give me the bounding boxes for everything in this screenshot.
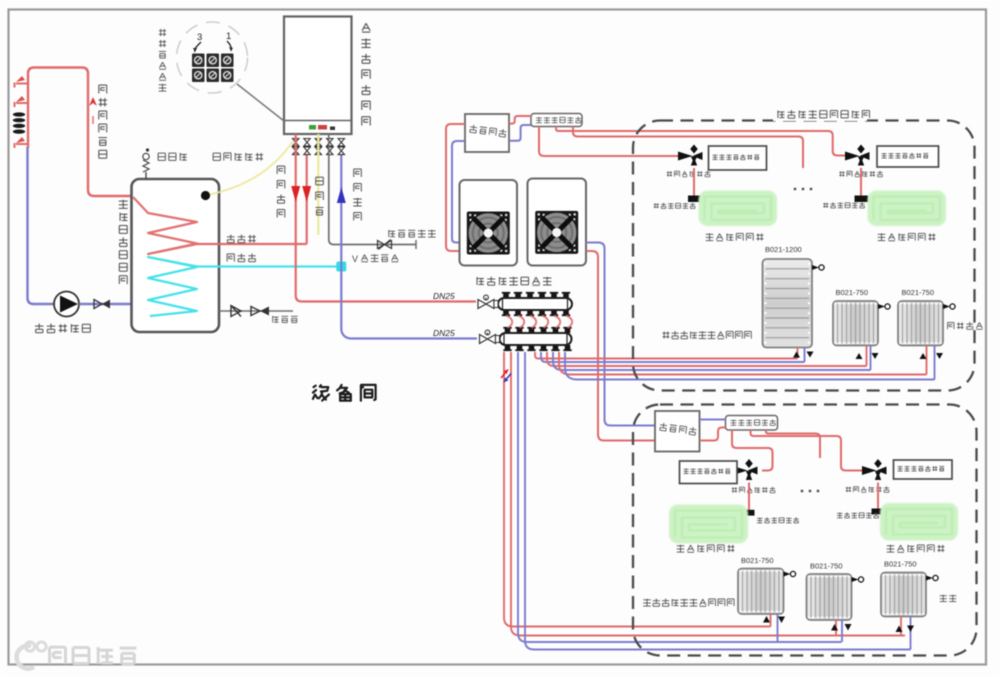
label 盘管式换热水箱 (vertical) xyxy=(119,200,128,284)
label 一级分集水缸 (box1) xyxy=(536,117,581,123)
zone 2F dashed boundary xyxy=(633,121,975,391)
label 地面辐射末端 (1F-right) xyxy=(887,545,945,553)
wire heating supply port1 (red) down to DN25 xyxy=(296,134,476,302)
outdoor unit 1 xyxy=(460,180,518,266)
label 温度传感器 xyxy=(213,153,263,161)
label DN25 supply xyxy=(433,291,455,301)
wire red unit1 to manifold1 xyxy=(509,116,531,124)
floor heating mat 1F-right xyxy=(880,503,958,541)
wire red outdoor2 to indoor2 (1F riser) xyxy=(586,251,655,441)
svg-text:B021-1200: B021-1200 xyxy=(765,245,802,254)
watermark text 大数跨境 xyxy=(50,647,137,664)
label 系统燃气壁挂炉 (vertical) xyxy=(361,23,370,125)
label 热水出 xyxy=(227,235,256,243)
zone 1F dashed boundary xyxy=(633,405,977,656)
label 一楼分集水器 (1F-left) xyxy=(757,517,799,523)
radiator stubs 2F-b xyxy=(920,346,944,380)
outdoor unit 2 xyxy=(528,179,587,266)
tank cyan coil xyxy=(148,257,197,316)
label box thermostat 1F-right xyxy=(894,460,953,479)
wire valve to fitting (1F-left) xyxy=(748,483,750,510)
radiator B021-750 2F-b xyxy=(898,301,955,346)
manifold M2 return inlet valve xyxy=(480,330,500,343)
radiator B021-1200 towel xyxy=(763,259,825,348)
remote linkage port detail circle xyxy=(177,22,248,93)
shower head marks xyxy=(13,112,25,133)
wire bundle right to 2F radiators xyxy=(535,352,798,359)
label box thermostat 2F-left xyxy=(709,146,767,170)
floor manifold fitting (2F-left) xyxy=(688,196,702,203)
ellipsis more circuits 1F xyxy=(801,490,820,493)
label box thermostat 1F-left xyxy=(680,461,738,484)
label 冷水进 xyxy=(227,254,256,262)
label 二楼分集水器 (left) xyxy=(654,203,696,209)
radiator B021-750 2F-a xyxy=(833,301,890,346)
label 地面辐射末端 (1F-left) xyxy=(677,545,735,553)
faucet tap 3 xyxy=(15,137,29,148)
terminal block 6 screws xyxy=(192,54,234,83)
tank red coil xyxy=(133,197,197,254)
heat pump indoor unit 2 box xyxy=(655,411,700,452)
wire red unit2 to manifold2 xyxy=(700,428,726,441)
wire port2 (red) down to tank hot-out xyxy=(306,155,308,244)
label 自来水 (tank inlet) xyxy=(273,316,298,323)
wire blue unit2 to manifold2 xyxy=(700,419,726,421)
floor heating mat 2F-right xyxy=(868,191,947,227)
thermostatic valve 2F-left xyxy=(678,145,703,166)
safety valve symbol xyxy=(143,148,149,179)
label 二楼卫生间散热器采暖 xyxy=(662,331,751,339)
thermostatic valve 1F-left xyxy=(733,459,758,480)
temperature sensor wire (yellow curve) xyxy=(210,141,293,195)
wire red A2 manifold2 to valve 1F-left xyxy=(732,430,773,471)
wire domestic hot water supply loop (red) xyxy=(28,68,133,197)
floor manifold fitting (1F-left) xyxy=(744,510,755,516)
flow arrows red down xyxy=(291,186,311,202)
svg-text:1: 1 xyxy=(226,31,231,42)
wire blue unit1 left to outdoor unit1 xyxy=(452,141,465,243)
label 设备间 (large) xyxy=(313,385,376,401)
V-filter valve symbol xyxy=(378,240,392,250)
tank coil heat exchanger box xyxy=(132,179,220,332)
faucet tap 2 xyxy=(15,96,29,107)
radiator stubs tall xyxy=(793,348,814,363)
label 水暖温控阀门 (1F-right) xyxy=(846,486,890,492)
floor manifold fitting (2F-right) xyxy=(855,196,869,203)
label 水暖温控阀门 (2F-left) xyxy=(667,171,711,177)
thermostatic valve 2F-right xyxy=(845,145,870,166)
label B021-750 (1F-c) xyxy=(884,560,917,569)
boiler gas wall-hung xyxy=(284,17,352,135)
label 水暖温控阀门 (1F-left) xyxy=(732,487,776,493)
label 生活阳台 xyxy=(948,322,983,329)
label 厨房 xyxy=(940,595,957,602)
label 安全阀 xyxy=(158,153,187,161)
label B021-1200 xyxy=(765,245,802,254)
wire red C2 manifold2 to spare xyxy=(766,430,820,458)
radiator B021-750 1F-c xyxy=(881,573,938,617)
valve after pump xyxy=(79,300,133,309)
label 自来水补水 xyxy=(389,230,436,237)
wire blue outdoor2 to indoor2 (1F riser) xyxy=(586,243,655,426)
watermark logo xyxy=(17,642,46,669)
label 一楼分集水器 (1F-right) xyxy=(837,512,879,518)
tank temperature sensor dot xyxy=(201,191,210,200)
label DN25 return xyxy=(433,328,455,338)
wire red B2 manifold2 to valve 1F-right xyxy=(751,430,867,471)
svg-text:B021-750: B021-750 xyxy=(741,556,774,565)
radiator stubs 1F-b xyxy=(831,620,852,642)
label 天然气 (vertical) xyxy=(316,177,324,215)
radiator stubs 1F-a xyxy=(763,614,785,642)
label B021-750 (2F-b) xyxy=(902,288,935,297)
label 采暖供水 (vertical) xyxy=(277,166,285,218)
wire valve to fitting (2F-right) xyxy=(860,168,862,196)
svg-text:DN25: DN25 xyxy=(433,291,455,301)
wire blue unit1 to manifold1 xyxy=(509,125,531,141)
label 生活热水出水 xyxy=(99,85,108,158)
flow arrows cross (red/blue) xyxy=(501,370,511,383)
label 热泵内机 (unit2, slanted) xyxy=(659,423,696,436)
label 热泵内机 (unit1, slanted) xyxy=(469,125,506,138)
wire red A manifold1 to floor valve1 (2F) xyxy=(539,127,678,157)
wire hot water out (red) tank to boiler port2 xyxy=(197,243,307,245)
radiator stubs 2F-a xyxy=(856,346,879,371)
label 一级分集水缸 (box2) xyxy=(731,419,776,425)
tank tap-water inlet line with valves 自来水 xyxy=(219,306,293,317)
label B021-750 (2F-a) xyxy=(836,288,869,297)
wire valve to fitting (1F-right) xyxy=(877,483,879,509)
svg-text:B021-750: B021-750 xyxy=(902,288,935,297)
label 水暖温控阀门 (2F-right) xyxy=(839,171,883,177)
label 空气源热泵外机 xyxy=(477,277,551,286)
wire red B manifold1 to floor valve2 (2F) xyxy=(556,127,849,156)
ellipsis more circuits 2F xyxy=(794,188,813,191)
red crossover arcs between manifolds xyxy=(506,316,572,328)
flow arrow up (red) xyxy=(89,97,97,124)
label box thermostat 2F-right xyxy=(877,146,939,167)
label B021-750 (1F-a) xyxy=(741,556,774,565)
primary manifold box 2 一级分集水缸 xyxy=(726,416,778,431)
label 采暖回水 (vertical) xyxy=(353,169,361,221)
wire domestic cold return (blue left riser) xyxy=(28,147,55,304)
svg-text:3: 3 xyxy=(197,32,202,43)
floor heating mat 2F-left xyxy=(699,191,778,227)
svg-text:B021-750: B021-750 xyxy=(810,562,843,571)
wire red C manifold1 to spare (ellipsis) xyxy=(573,127,803,169)
floor manifold fitting (1F-right) xyxy=(872,509,885,515)
pump hot water circulation xyxy=(54,292,79,317)
manifold M1 supply inlet valve xyxy=(478,295,498,308)
label 远程联动端口 (vertical) xyxy=(159,29,167,91)
thermostatic valve 1F-right xyxy=(862,459,887,480)
terminal numbers 3 and 1 with arrows xyxy=(193,31,233,52)
label 热水循环泵 xyxy=(35,324,90,333)
svg-text:B021-750: B021-750 xyxy=(884,560,917,569)
label 地面辐射末端 (2F-left) xyxy=(706,233,764,241)
wire red unit1 left to outdoor unit1 xyxy=(446,124,465,251)
svg-text:B021-750: B021-750 xyxy=(836,288,869,297)
manifold M2 return xyxy=(500,328,572,350)
svg-text:DN25: DN25 xyxy=(433,328,455,338)
wire cold water in (cyan) xyxy=(197,265,341,267)
label B021-750 (1F-b) xyxy=(810,562,843,571)
label V型过滤器 xyxy=(352,254,398,264)
wire heating return port5 (blue) down to DN25 xyxy=(341,155,477,339)
svg-text:V: V xyxy=(352,254,358,264)
wire natural gas (yellow) xyxy=(317,134,319,235)
floor heating mat 1F-left xyxy=(669,505,748,544)
label 地面辐射末端 (2F-right) xyxy=(878,233,936,241)
pointer line circle to boiler xyxy=(237,84,284,121)
label 二楼分集水器 (right) xyxy=(823,202,865,208)
wire valve to floor manifold fitting (2F-left) xyxy=(693,168,695,196)
radiator stubs 1F-c xyxy=(896,617,915,650)
flow arrow blue up xyxy=(337,187,346,203)
boiler port valves xyxy=(293,139,345,155)
cyan junction node xyxy=(336,262,346,272)
radiator B021-750 1F-b xyxy=(807,574,864,620)
radiator B021-750 1F-a xyxy=(738,569,796,615)
faucet tap 1 xyxy=(15,76,29,88)
zone title 空气源热泵空调系统 xyxy=(773,108,870,121)
heat pump indoor unit 1 box xyxy=(465,114,509,152)
manifold M1 supply xyxy=(498,293,572,315)
wire bundle down to 1F radiators xyxy=(504,352,771,627)
primary manifold box 1 一级分集水缸 xyxy=(531,114,582,127)
wire tap water makeup (gray) xyxy=(329,134,416,249)
label 一楼卫生间散热器采暖 xyxy=(643,599,734,607)
